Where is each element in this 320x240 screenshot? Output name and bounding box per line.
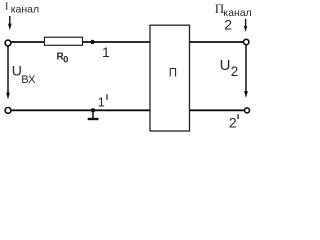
svg-text:2: 2 (231, 64, 239, 79)
terminal node (top-right output terminal 2) (244, 39, 249, 44)
svg-text:U: U (220, 57, 231, 74)
current arrow, channel II output (244, 19, 247, 32)
svg-text:канал: канал (11, 3, 39, 15)
label node 2' (229, 114, 238, 130)
wire: resistor R0 to block П (83, 41, 151, 43)
wire: block П to bottom-right terminal (190, 109, 245, 111)
junction node 1 (90, 40, 94, 44)
wire: input terminal to resistor R0 (11, 41, 45, 43)
current arrow, channel I input (8, 16, 12, 30)
terminal node (top-left input terminal) (5, 40, 11, 46)
arrowhead Uвх direction (6, 93, 10, 100)
label R0 (57, 52, 69, 66)
wire: block П to top-right terminal (190, 41, 244, 43)
wire: right vertical rail (U2) (245, 45, 247, 93)
terminal node (bottom-right output terminal 2') (245, 108, 250, 113)
label П канал (channel II) (215, 1, 252, 19)
ground symbol (88, 110, 99, 119)
wire: left vertical rail (Uвх) (7, 45, 9, 95)
arrowhead U2 direction (244, 91, 248, 98)
svg-text:1: 1 (98, 94, 105, 109)
svg-text:0: 0 (63, 54, 68, 65)
junction node 1' (91, 108, 95, 112)
label node 1' (98, 94, 107, 109)
label I канал (channel I current label) (5, 1, 39, 16)
label Uвх (input voltage) (12, 62, 36, 86)
svg-text:2: 2 (229, 114, 237, 130)
svg-text:П: П (169, 67, 177, 79)
resistor R0 (45, 37, 83, 45)
label U2 (output voltage) (220, 57, 239, 79)
terminal node (bottom-left input terminal) (5, 108, 11, 114)
svg-text:2: 2 (224, 16, 232, 32)
svg-text:1: 1 (102, 44, 110, 60)
svg-text:I: I (5, 1, 9, 13)
svg-text:ВХ: ВХ (21, 74, 36, 86)
wire: bottom-left terminal to block П (11, 109, 151, 111)
converter block П (150, 25, 190, 131)
